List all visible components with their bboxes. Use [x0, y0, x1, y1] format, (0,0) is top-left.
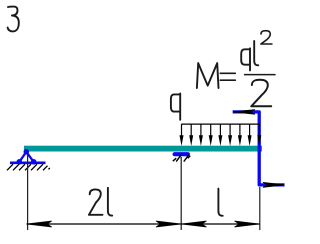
dim arrowhead middle-left (points right)	[156, 221, 181, 227]
label 2l : letter l	[108, 188, 112, 216]
dimension line	[27, 223, 260, 225]
moment bottom arrowhead (points right)	[263, 182, 285, 187]
extension line right	[259, 187, 261, 230]
moment top arrowhead (points left)	[233, 110, 255, 115]
exponent 2	[261, 31, 272, 44]
extension line left	[27, 153, 29, 231]
moment couple M: blue Z-link (top arm, vertical link, bottom arm)	[233, 112, 285, 185]
extension line middle	[180, 157, 182, 230]
dim arrowhead right end (points right)	[235, 221, 260, 227]
formula l (numerator)	[254, 41, 258, 65]
label M (moment formula, letter M)	[197, 63, 219, 88]
label l (right span)	[218, 189, 222, 216]
equals sign	[220, 73, 235, 80]
formula q (numerator)	[241, 48, 250, 70]
distributed load top line	[181, 123, 259, 125]
left support hatching	[7, 164, 50, 170]
middle support hatching	[173, 155, 191, 162]
label 2l (left span) : digit 2	[89, 189, 103, 214]
fraction bar	[244, 74, 276, 76]
left support ground line	[10, 162, 46, 165]
label q (distributed load)	[171, 94, 180, 120]
label 3 (problem number)	[8, 7, 19, 32]
denominator 2	[251, 80, 271, 107]
distributed load arrows (9)	[180, 124, 262, 146]
left pinned support: triangle	[19, 152, 33, 162]
left support hinge circles	[17, 149, 37, 165]
dim arrowhead middle-right (points left)	[182, 221, 207, 227]
middle roller support (blue pad)	[173, 152, 191, 156]
beam	[24, 146, 262, 152]
dim arrowhead left end (points left)	[27, 221, 52, 227]
